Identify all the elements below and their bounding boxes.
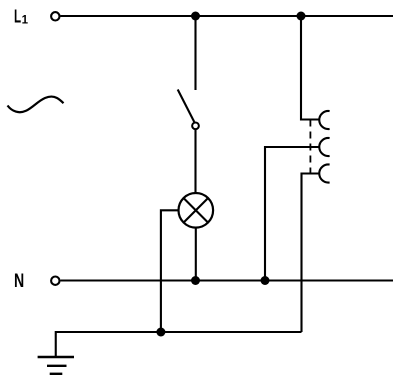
- switch S1 contact: [192, 122, 199, 129]
- wire lamp bottom lead: [195, 228, 197, 281]
- wire switch top: [194, 16, 196, 90]
- socket contact middle: [319, 138, 329, 156]
- terminal L1: [51, 12, 59, 20]
- socket linkage dashed: [309, 120, 311, 174]
- socket contact top: [319, 111, 329, 129]
- wire N: [61, 279, 394, 281]
- wire bottom PE: [56, 332, 302, 357]
- wire L1: [61, 15, 394, 17]
- switch S1 blade: [178, 90, 195, 123]
- junction N/lamp: [191, 276, 200, 285]
- lamp E1: [179, 193, 214, 228]
- wire socket PE feed: [302, 174, 320, 333]
- wire switch to lamp: [194, 129, 196, 193]
- junction L1/switch: [191, 12, 200, 21]
- terminal N: [51, 277, 59, 285]
- AC symbol: [8, 97, 64, 113]
- ground: [38, 357, 74, 374]
- wire socket L feed: [301, 16, 319, 120]
- svg-text:1: 1: [22, 15, 29, 27]
- junction bottom: [156, 328, 165, 337]
- junction N/socket: [261, 276, 270, 285]
- socket contact bottom: [319, 165, 329, 183]
- junction L1/socket: [297, 12, 306, 21]
- wire lamp left lead: [161, 210, 179, 332]
- svg-text:L: L: [14, 7, 21, 27]
- svg-text:N: N: [14, 271, 24, 292]
- wire socket N feed: [265, 147, 319, 281]
